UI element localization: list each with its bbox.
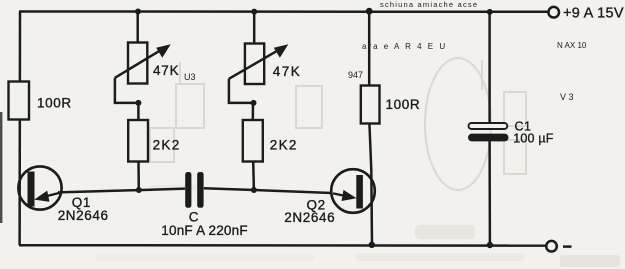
wire: top rail (19, 10, 548, 13)
wire: pot2 wiper bend (229, 79, 252, 103)
node: bottom rail / Q2 branch junction (369, 242, 375, 248)
transistor Q2 (UJT 2N2646) (331, 169, 375, 213)
potentiometer P2 arrow (229, 44, 288, 79)
resistor 2K2 #1 (128, 120, 148, 162)
resistor 2K2 #2 (243, 120, 263, 162)
wire: pot1 wiper bend (115, 78, 137, 103)
node: emitter line / 2K2#2 junction (251, 187, 257, 193)
terminal: +9 A 15V (548, 7, 559, 18)
svg-text:100R: 100R (386, 97, 421, 112)
svg-text:V 3: V 3 (560, 92, 574, 102)
svg-text:100 µF: 100 µF (513, 132, 554, 146)
capacitor C plates (185, 172, 203, 208)
terminal: negative (546, 241, 557, 252)
svg-text:+9 A 15V: +9 A 15V (563, 6, 624, 22)
svg-text:47K: 47K (153, 63, 179, 78)
svg-text:100R: 100R (37, 95, 72, 110)
scan edge artifact at far left (0, 112, 2, 223)
wire: pot2 lower lead to 2K2 (252, 103, 255, 121)
wire: C1 bottom lead (488, 141, 491, 245)
svg-text:2N2646: 2N2646 (58, 208, 109, 223)
wire: emitter line cap to Q2 (204, 188, 332, 193)
wire: 2K2#2 bottom lead (252, 162, 255, 191)
wire: minus dash after bottom terminal (563, 245, 572, 248)
node: top rail / 100R junction (366, 8, 373, 15)
wire: 2K2#1 bottom lead (137, 162, 140, 191)
potentiometer P2 47K body (245, 44, 264, 85)
svg-text:947: 947 (348, 70, 363, 80)
svg-text:U3: U3 (184, 72, 196, 82)
svg-text:2K2: 2K2 (270, 137, 298, 152)
wire: right branch vertical through Q2 (369, 123, 372, 245)
wire: pot1 top lead (136, 12, 139, 44)
svg-text:2K2: 2K2 (153, 137, 181, 152)
capacitor C1 electrolytic (468, 123, 509, 141)
svg-text:2N2646: 2N2646 (284, 210, 335, 225)
svg-text:47K: 47K (273, 64, 302, 79)
resistor R1 100R left (9, 82, 30, 120)
ghost bleed-through shapes (faint) (150, 58, 526, 190)
resistor R2 100R right (361, 86, 380, 124)
transistor Q1 (UJT 2N2646) (18, 166, 61, 209)
node: top rail / C1 junction (487, 9, 493, 15)
svg-text:N AX 10: N AX 10 (557, 41, 587, 50)
svg-text:ara e A R 4 E U: ara e A R 4 E U (362, 42, 447, 51)
potentiometer P1 47K body (128, 43, 147, 84)
svg-text:10nF A 220nF: 10nF A 220nF (161, 223, 247, 238)
wire: left rail vertical (18, 12, 21, 246)
node: pot2 wiper junction (251, 100, 257, 106)
wire: bottom rail (19, 244, 546, 247)
wire: emitter line Q1 to cap (58, 189, 185, 193)
node: top rail / pot1 junction (135, 9, 141, 15)
node: pot1 wiper junction (135, 100, 141, 106)
node: top rail / pot2 junction (251, 9, 257, 15)
wire: pot1 lower lead to 2K2 (137, 103, 140, 121)
node: emitter line / 2K2#1 junction (136, 187, 142, 193)
potentiometer P1 arrow (115, 44, 171, 78)
wire: right 100R top lead (368, 12, 371, 87)
wire: pot2 top lead (253, 12, 256, 45)
wire: C1 top lead (488, 12, 491, 123)
svg-text:schiuna amiache acse: schiuna amiache acse (380, 0, 478, 9)
node: bottom rail / C1 junction (487, 242, 493, 248)
